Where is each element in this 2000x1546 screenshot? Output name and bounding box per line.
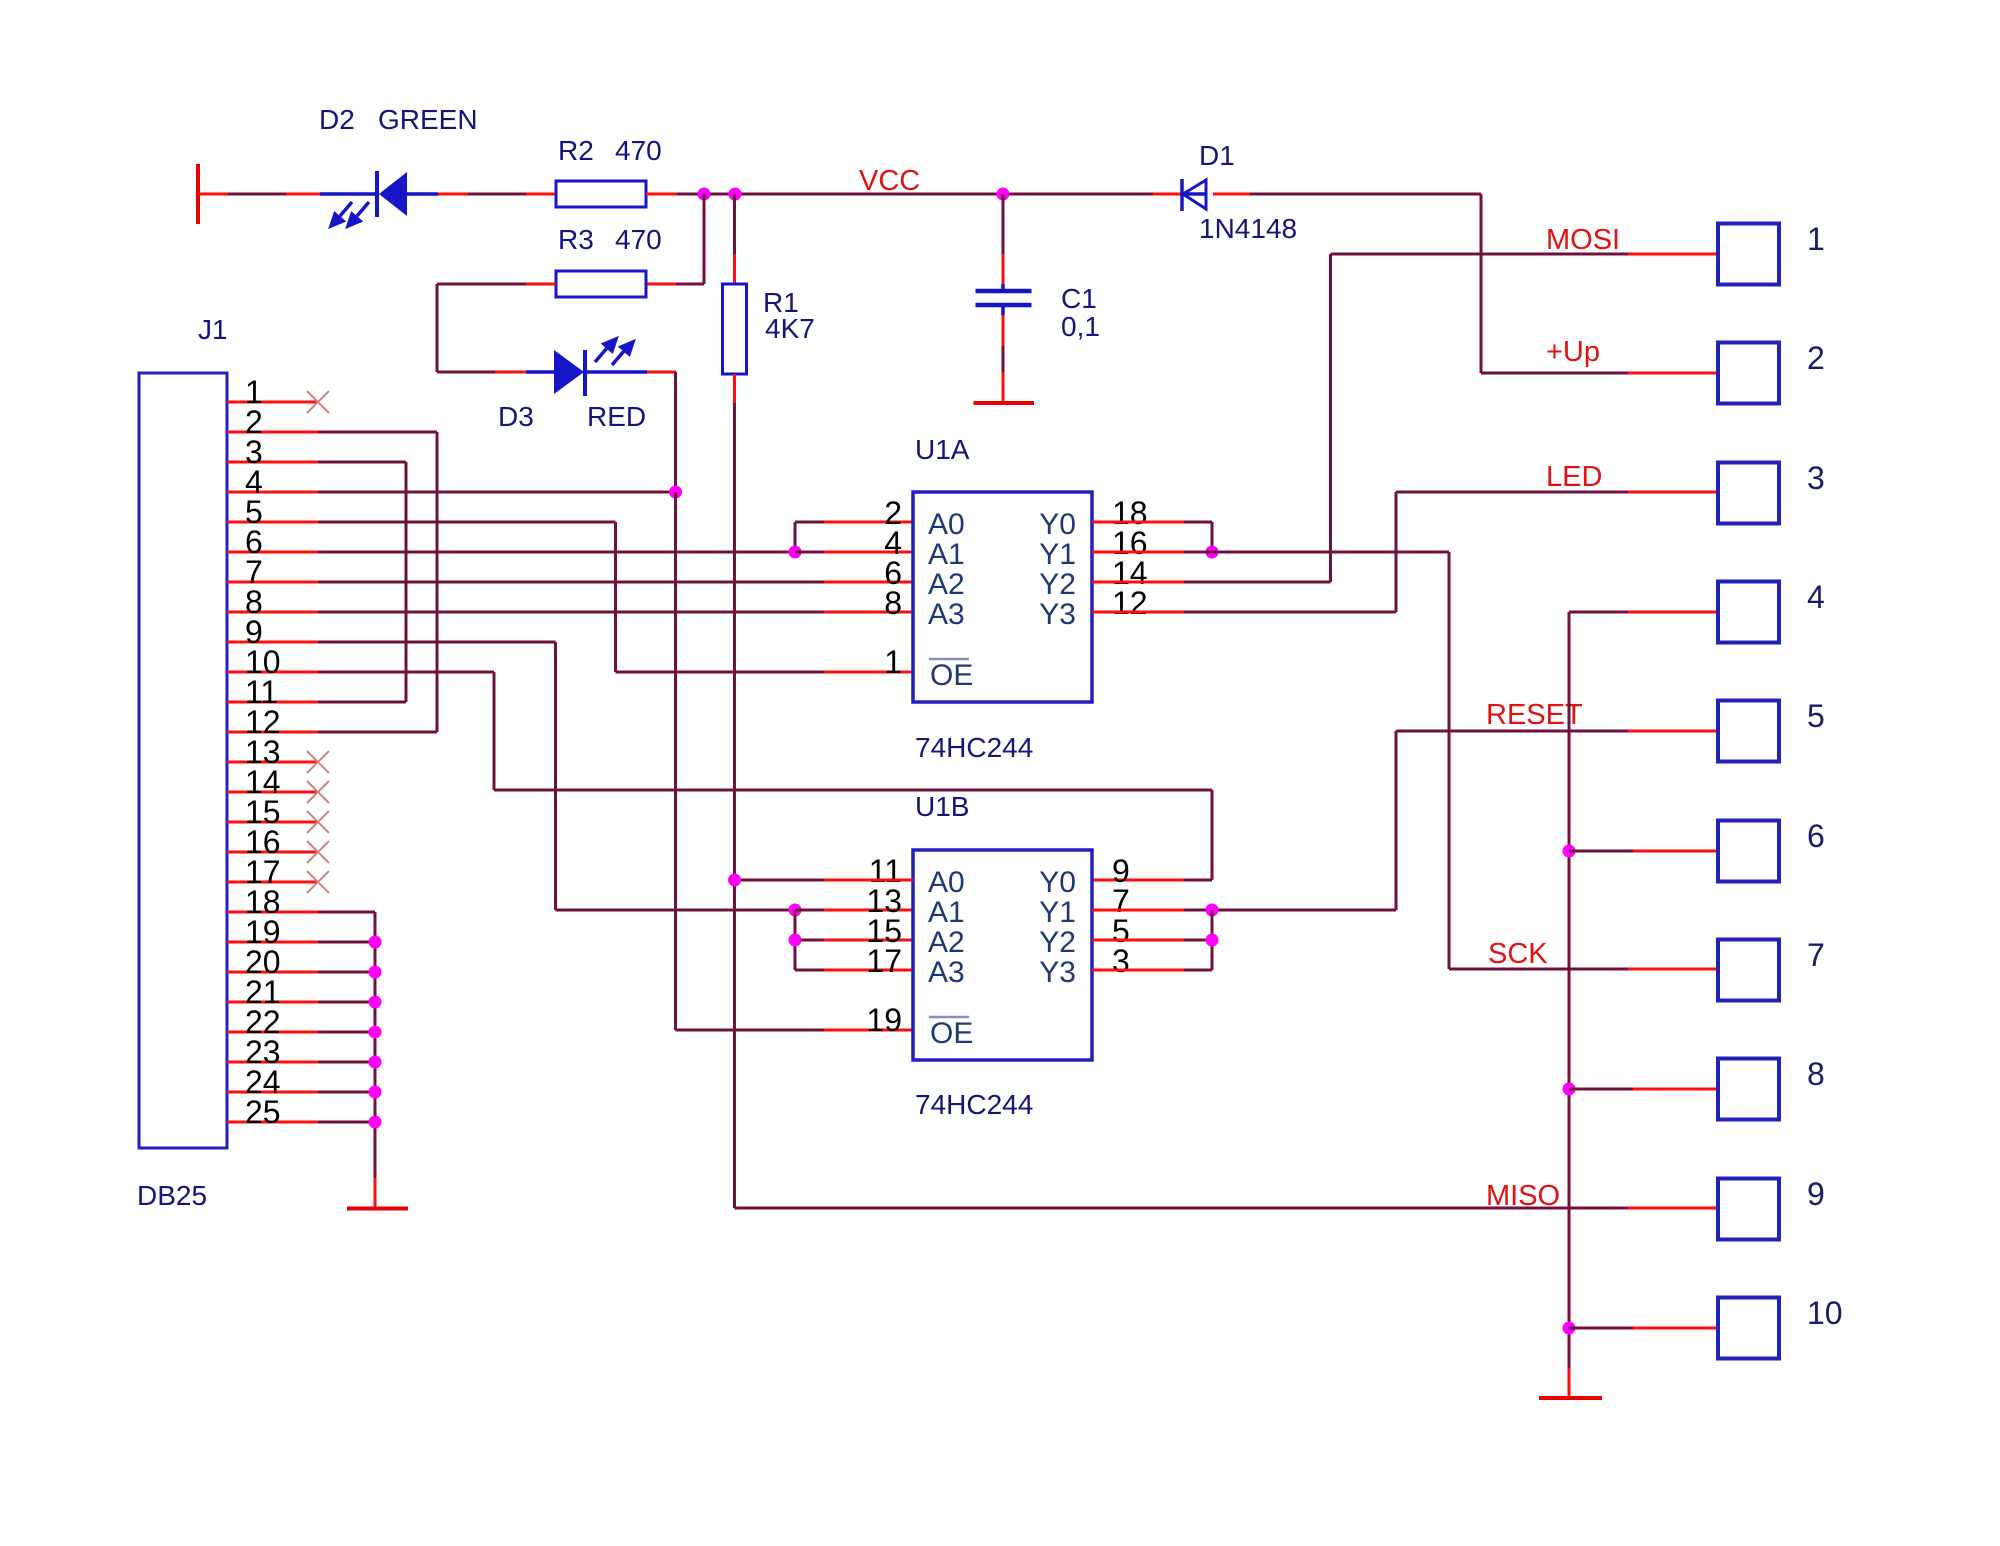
ISP pad 8 (1718, 1059, 1779, 1120)
wire J1.5 to U1A OE (318, 522, 913, 672)
svg-text:8: 8 (1807, 1056, 1825, 1092)
wire R3 to D3 anode (437, 284, 556, 372)
J1 pin 25 number (245, 1094, 281, 1130)
U1A pin number 2 (884, 495, 902, 531)
ISP pad 3 (1718, 463, 1779, 524)
svg-text:D3: D3 (498, 401, 534, 432)
no-connect X on J1 pin 14 (307, 781, 329, 803)
junction J1 pin 20 ground (369, 966, 382, 979)
svg-text:1: 1 (884, 644, 902, 680)
svg-text:J1: J1 (198, 314, 228, 345)
svg-text:R2: R2 (558, 135, 594, 166)
label 1N4148 (1199, 213, 1297, 244)
wire MISO net to pad 9 (735, 1207, 1719, 1210)
ISP pad 1 number (1807, 221, 1825, 257)
svg-text:R3: R3 (558, 224, 594, 255)
svg-text:74HC244: 74HC244 (915, 1089, 1033, 1120)
svg-text:U1B: U1B (915, 791, 969, 822)
ground (J1 shield) (347, 1207, 408, 1211)
svg-text:C1: C1 (1061, 283, 1097, 314)
svg-text:Y1: Y1 (1039, 538, 1076, 571)
wire U1A A0 corner (795, 522, 913, 552)
junction U1A Y0/Y1 (1206, 546, 1219, 559)
J1 pin 19 stub (227, 941, 318, 944)
no-connect X on J1 pin 16 (307, 841, 329, 863)
resistor R3 470 (556, 271, 646, 297)
J1 pin 22 stub (227, 1031, 318, 1034)
J1 pin 10 stub (227, 671, 318, 674)
U1A port OE (929, 659, 973, 692)
J1 pin 8 stub (227, 611, 318, 614)
wire J1.10 to U1B Y0 (318, 672, 1212, 880)
J1 pin 22 number (245, 1004, 281, 1040)
J1 pin 9 stub (227, 641, 318, 644)
connector J1 DB25 body (139, 373, 227, 1148)
U1A port A1 (928, 538, 965, 571)
J1 pin 24 number (245, 1064, 281, 1100)
U1A pin number 6 (884, 555, 902, 591)
J1 pin 11 stub (227, 701, 318, 704)
J1 pin 11 number (245, 674, 278, 710)
junction J1 pin 22 ground (369, 1026, 382, 1039)
J1 pin 16 stub (227, 851, 318, 854)
resistor R1 4K7 (723, 284, 747, 374)
U1B pin number 5 (1112, 913, 1130, 949)
ISP pad 10 (1718, 1298, 1779, 1359)
J1 pin 18 number (245, 884, 281, 920)
label U1A 74HC244 (915, 732, 1033, 763)
U1B pin number 3 (1112, 943, 1130, 979)
ISP pad 8 number (1807, 1056, 1825, 1092)
svg-text:8: 8 (884, 585, 902, 621)
wire U1B Y1 / RESET net to pad 5 (1092, 731, 1718, 910)
svg-text:1N4148: 1N4148 (1199, 213, 1297, 244)
J1 pin 9 number (245, 614, 263, 650)
J1 pin 4 number (245, 464, 263, 500)
ISP pad 1 (1718, 224, 1779, 285)
wire loopback J1.3 - J1.11 (318, 462, 406, 702)
J1 pin 6 stub (227, 551, 318, 554)
svg-text:+Up: +Up (1546, 336, 1600, 368)
svg-text:A3: A3 (928, 956, 965, 989)
wire J1.7 to U1A A2 (318, 581, 913, 584)
J1 pin 5 stub (227, 521, 318, 524)
svg-text:1: 1 (1807, 221, 1825, 257)
J1 pin 21 stub (227, 1001, 318, 1004)
svg-text:9: 9 (1807, 1176, 1825, 1212)
svg-text:7: 7 (1807, 937, 1825, 973)
svg-text:74HC244: 74HC244 (915, 732, 1033, 763)
svg-text:Y3: Y3 (1039, 598, 1076, 631)
buffer U1B 74HC244 body (913, 850, 1092, 1060)
ISP pad 7 number (1807, 937, 1825, 973)
U1A pin number 12 (1112, 585, 1148, 621)
LED D2 GREEN (320, 171, 438, 226)
junction R1 drop (729, 188, 742, 201)
J1 pin 2 stub (227, 431, 318, 434)
ISP pad 2 number (1807, 340, 1825, 376)
svg-text:Y2: Y2 (1039, 926, 1076, 959)
svg-text:Y3: Y3 (1039, 956, 1076, 989)
wire GND to pad 8 (1569, 1088, 1718, 1091)
junction pin4 / D3 cathode (669, 486, 682, 499)
wire J1.8 to U1A A3 (318, 611, 913, 614)
U1B port Y2 (1039, 926, 1076, 959)
J1 pin 14 number (245, 764, 281, 800)
buffer U1A 74HC244 body (913, 492, 1092, 702)
junction U1B Y2 tie (1206, 934, 1219, 947)
junction GND pad 10 (1563, 1322, 1576, 1335)
wire J1.9 to U1B A1/A2/A3 (318, 642, 795, 910)
J1 pin 21 number (245, 974, 281, 1010)
junction J1 pin 21 ground (369, 996, 382, 1009)
svg-text:2: 2 (1807, 340, 1825, 376)
ISP pad 3 number (1807, 460, 1825, 496)
label D3 (498, 401, 534, 432)
wire C1 to ground (1002, 315, 1005, 401)
junction R1 net / U1B A0 (728, 874, 741, 887)
J1 pin 18 stub (227, 911, 318, 914)
wire +Up net (down and right to pad 2) (1481, 194, 1718, 373)
label MISO net (1486, 1180, 1560, 1212)
J1 pin 1 stub (227, 401, 318, 404)
svg-text:U1A: U1A (915, 434, 970, 465)
ISP pad 5 (1718, 701, 1779, 762)
svg-text:MOSI: MOSI (1546, 224, 1620, 256)
wire U1A Y3 / LED net to pad 3 (1092, 492, 1718, 612)
svg-text:A0: A0 (928, 866, 965, 899)
svg-text:RED: RED (587, 401, 646, 432)
J1 pin 6 number (245, 524, 263, 560)
J1 pin 15 number (245, 794, 281, 830)
svg-text:SCK: SCK (1488, 938, 1548, 970)
U1B pin number 11 (869, 853, 902, 889)
label J1 (198, 314, 228, 345)
junction J1 pin 19 ground (369, 936, 382, 949)
wire D1 to corner (1213, 193, 1481, 196)
junction J1 pin 24 ground (369, 1086, 382, 1099)
svg-text:10: 10 (1807, 1295, 1843, 1331)
wire U1A Y0 to Y1 tie (1092, 522, 1212, 552)
label R3 (558, 224, 594, 255)
label D1 (1199, 140, 1235, 171)
J1 pin 23 number (245, 1034, 281, 1070)
label RED (587, 401, 646, 432)
resistor R2 470 (556, 181, 646, 207)
wire R2 to D1 (VCC net) (646, 193, 1182, 196)
svg-text:VCC: VCC (859, 165, 920, 197)
wire VCC to R1 (733, 194, 736, 284)
wire loopback J1.2 - J1.12 (318, 432, 437, 732)
J1 pin 2 number (245, 404, 263, 440)
label LED net (1546, 461, 1602, 493)
J1 pin 25 stub (227, 1121, 318, 1124)
label RESET net (1486, 699, 1583, 731)
junction C1 tap (997, 188, 1010, 201)
U1B port A2 (928, 926, 965, 959)
label C1 value 0,1 (1061, 311, 1100, 342)
J1 pin 13 stub (227, 761, 318, 764)
U1A pin number 18 (1112, 495, 1148, 531)
U1A pin number 14 (1112, 555, 1148, 591)
J1 pin 12 number (245, 704, 281, 740)
junction J1 pin 23 ground (369, 1056, 382, 1069)
J1 pin 16 number (245, 824, 281, 860)
svg-text:Y0: Y0 (1039, 508, 1076, 541)
junction J1.9 / U1B A1 (789, 904, 802, 917)
label R2 value 470 (615, 135, 662, 166)
wire U1B A0 stub from R1 net (735, 879, 914, 882)
junction GND pad 8 (1563, 1083, 1576, 1096)
wire U1B Y2/Y3 tie (1092, 910, 1212, 970)
ISP pad 5 number (1807, 698, 1825, 734)
wire D3 cathode down to pin4 net (647, 372, 676, 492)
label R2 (558, 135, 594, 166)
label MOSI net (1546, 224, 1620, 256)
wire U1A Y2 / MOSI net to pad 1 (1092, 254, 1718, 582)
no-connect X on J1 pin 13 (307, 751, 329, 773)
svg-text:A2: A2 (928, 568, 965, 601)
U1A pin number 1 (884, 644, 902, 680)
U1A port Y0 (1039, 508, 1076, 541)
J1 pin 19 number (245, 914, 281, 950)
label R1 (763, 287, 799, 318)
wire VCC to C1 (1002, 194, 1005, 284)
wire U1B A1 stub (795, 909, 913, 912)
power terminal bar (left) (196, 164, 200, 224)
label VCC net (859, 165, 920, 197)
diode D1 1N4148 (1182, 179, 1206, 211)
wire GND to pad 6 (1569, 850, 1718, 853)
svg-text:MISO: MISO (1486, 1180, 1560, 1212)
ISP pad 9 (1718, 1179, 1779, 1240)
U1A port A2 (928, 568, 965, 601)
U1B pin number 15 (866, 913, 902, 949)
svg-text:19: 19 (866, 1002, 902, 1038)
wire GND rail to pad 4 (1569, 612, 1718, 1398)
ISP pad 7 (1718, 940, 1779, 1001)
wire D2 to R2 (438, 193, 556, 196)
U1B pin number 19 (866, 1002, 902, 1038)
label U1A (915, 434, 970, 465)
svg-text:12: 12 (1112, 585, 1148, 621)
svg-text:3: 3 (1807, 460, 1825, 496)
svg-text:D1: D1 (1199, 140, 1235, 171)
U1B pin number 7 (1112, 883, 1130, 919)
ground (ISP connector) (1539, 1396, 1602, 1400)
junction U1B Y1 tie (1206, 904, 1219, 917)
U1B pin number 13 (866, 883, 902, 919)
label +Up net (1546, 336, 1600, 368)
J1 pin 15 stub (227, 821, 318, 824)
U1A pin number 4 (884, 525, 902, 561)
J1 pin 17 stub (227, 881, 318, 884)
wire R1 down (MISO pullup) (733, 374, 736, 1208)
ISP pad 9 number (1807, 1176, 1825, 1212)
junction GND pad 6 (1563, 845, 1576, 858)
J1 pin 1 number (245, 374, 263, 410)
U1B port A3 (928, 956, 965, 989)
label D2 (319, 104, 355, 135)
wire VCC rail segment (terminal to D2) (198, 193, 320, 196)
svg-text:A0: A0 (928, 508, 965, 541)
label C1 (1061, 283, 1097, 314)
svg-text:470: 470 (615, 135, 662, 166)
capacitor C1 0,1 (976, 284, 1032, 315)
J1 pin 8 number (245, 584, 263, 620)
J1 pin 24 stub (227, 1091, 318, 1094)
label GREEN (378, 104, 478, 135)
U1B port Y1 (1039, 896, 1076, 929)
svg-text:Y0: Y0 (1039, 866, 1076, 899)
J1 pin 3 number (245, 434, 263, 470)
svg-text:A1: A1 (928, 538, 965, 571)
svg-text:OE: OE (930, 1017, 973, 1050)
J1 pin 10 number (245, 644, 281, 680)
U1A port A0 (928, 508, 965, 541)
no-connect X on J1 pin 1 (307, 391, 329, 413)
svg-text:0,1: 0,1 (1061, 311, 1100, 342)
svg-text:Y2: Y2 (1039, 568, 1076, 601)
svg-text:3: 3 (1112, 943, 1130, 979)
junction U1B A2 tie (789, 934, 802, 947)
ISP pad 4 number (1807, 579, 1825, 615)
J1 pin 17 number (245, 854, 281, 890)
ISP pad 6 (1718, 821, 1779, 882)
label DB25 (137, 1180, 207, 1211)
junction J1.6 / U1A A1 (789, 546, 802, 559)
U1A pin number 16 (1112, 525, 1148, 561)
J1 pin 20 stub (227, 971, 318, 974)
svg-text:5: 5 (1807, 698, 1825, 734)
U1B port A0 (928, 866, 965, 899)
svg-text:OE: OE (930, 659, 973, 692)
U1A port Y2 (1039, 568, 1076, 601)
U1A port A3 (928, 598, 965, 631)
ISP pad 10 number (1807, 1295, 1843, 1331)
wire J1.4 to D3/U1B OE net (318, 491, 676, 494)
J1 pin 23 stub (227, 1061, 318, 1064)
J1 pin 14 stub (227, 791, 318, 794)
wire GND to pad 10 (1569, 1327, 1718, 1330)
J1 pin 5 number (245, 494, 263, 530)
ISP pad 6 number (1807, 818, 1825, 854)
no-connect X on J1 pin 15 (307, 811, 329, 833)
svg-text:GREEN: GREEN (378, 104, 478, 135)
U1A pin number 8 (884, 585, 902, 621)
J1 pin 20 number (245, 944, 281, 980)
label R3 value 470 (615, 224, 662, 255)
svg-text:A2: A2 (928, 926, 965, 959)
J1 pin 7 number (245, 554, 263, 590)
U1A port Y3 (1039, 598, 1076, 631)
U1A port Y1 (1039, 538, 1076, 571)
svg-text:25: 25 (245, 1094, 281, 1130)
svg-text:6: 6 (1807, 818, 1825, 854)
label U1B 74HC244 (915, 1089, 1033, 1120)
U1B port A1 (928, 896, 965, 929)
U1B pin number 17 (866, 943, 902, 979)
svg-text:17: 17 (866, 943, 902, 979)
label U1B (915, 791, 969, 822)
svg-text:470: 470 (615, 224, 662, 255)
wire U1B A1-A2-A3 tie (795, 910, 913, 970)
U1B port Y0 (1039, 866, 1076, 899)
J1 pin 7 stub (227, 581, 318, 584)
svg-text:D2: D2 (319, 104, 355, 135)
J1 pin 13 number (245, 734, 281, 770)
U1B port Y3 (1039, 956, 1076, 989)
svg-text:LED: LED (1546, 461, 1602, 493)
U1B pin number 9 (1112, 853, 1130, 889)
wire U1A A1 stub (795, 551, 913, 554)
J1 pin 4 stub (227, 491, 318, 494)
label SCK net (1488, 938, 1548, 970)
wire J1 ground pins 18-25 rail (318, 912, 375, 1208)
svg-text:DB25: DB25 (137, 1180, 207, 1211)
ISP pad 4 (1718, 582, 1779, 643)
svg-text:4K7: 4K7 (765, 313, 815, 344)
J1 pin 12 stub (227, 731, 318, 734)
svg-text:Y1: Y1 (1039, 896, 1076, 929)
svg-text:A1: A1 (928, 896, 965, 929)
wire J1.6 to U1A A0/A1 (318, 551, 795, 554)
junction R3 drop (698, 188, 711, 201)
LED D3 RED (526, 339, 647, 396)
junction J1 pin 25 ground (369, 1116, 382, 1129)
label R1 value 4K7 (765, 313, 815, 344)
wire junction to R3 (646, 194, 704, 284)
ISP pad 2 (1718, 343, 1779, 404)
wire pin4 net down to U1B OE (676, 492, 914, 1030)
no-connect X on J1 pin 17 (307, 871, 329, 893)
wire U1A Y1 / SCK net to pad 7 (1092, 552, 1718, 969)
ground (C1) (974, 401, 1035, 405)
J1 pin 3 stub (227, 461, 318, 464)
svg-text:A3: A3 (928, 598, 965, 631)
svg-text:4: 4 (1807, 579, 1825, 615)
U1B port OE (929, 1017, 973, 1050)
